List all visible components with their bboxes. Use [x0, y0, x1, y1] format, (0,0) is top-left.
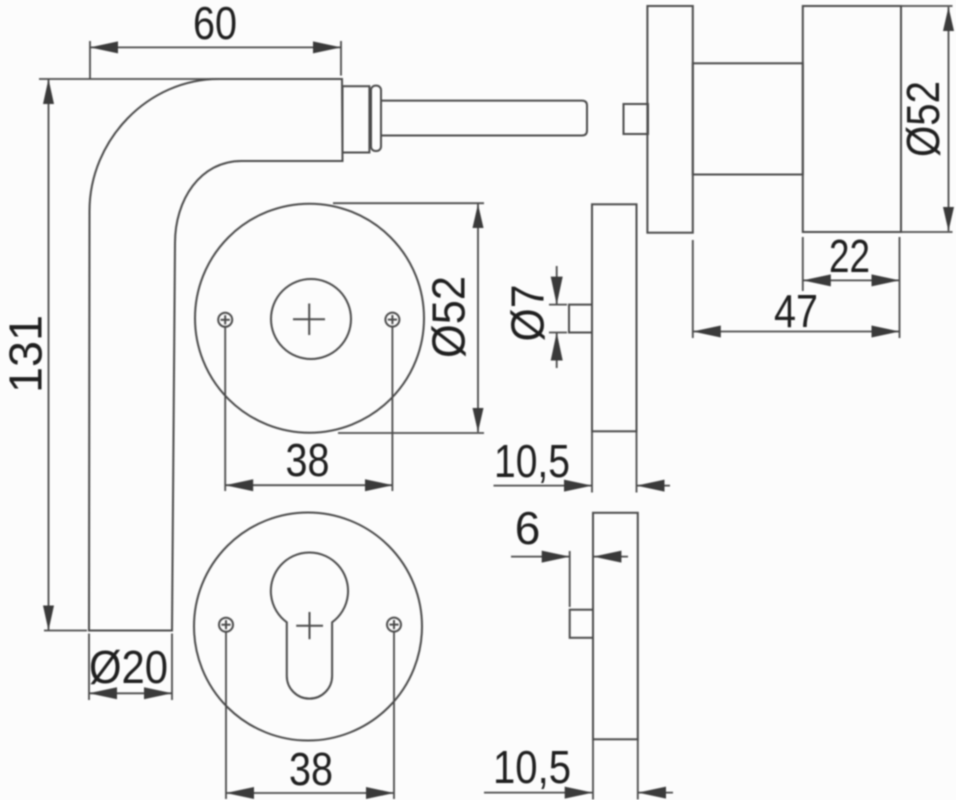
svg-text:38: 38	[289, 743, 333, 795]
svg-text:6: 6	[515, 502, 541, 554]
svg-text:Ø7: Ø7	[502, 285, 554, 342]
svg-text:10,5: 10,5	[494, 435, 570, 487]
svg-text:Ø52: Ø52	[423, 276, 475, 358]
svg-text:22: 22	[829, 230, 870, 282]
svg-text:Ø20: Ø20	[89, 641, 168, 693]
svg-text:Ø52: Ø52	[897, 81, 949, 157]
svg-text:10,5: 10,5	[493, 741, 571, 793]
svg-text:38: 38	[286, 434, 330, 486]
svg-text:60: 60	[193, 0, 237, 49]
svg-text:47: 47	[774, 285, 818, 337]
svg-text:131: 131	[0, 315, 52, 393]
